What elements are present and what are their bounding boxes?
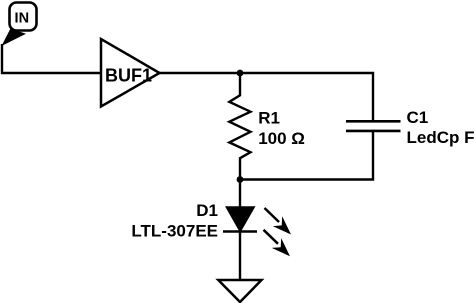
resistor R1 <box>229 73 250 180</box>
junction node R1 bottom <box>237 176 244 183</box>
port IN <box>2 3 37 47</box>
LED D1 <box>223 207 257 232</box>
wire D1 cathode to ground <box>239 232 241 281</box>
svg-text:C1: C1 <box>407 108 429 127</box>
wire R1 bottom to C1 bottom <box>240 131 373 180</box>
svg-text:R1: R1 <box>258 109 280 128</box>
svg-text:BUF1: BUF1 <box>105 66 152 86</box>
LED D1 light arrow 2 <box>264 230 291 256</box>
wire BUF1 output to C1 top <box>160 73 374 121</box>
svg-text:D1: D1 <box>196 201 218 220</box>
svg-text:LedCp F: LedCp F <box>407 128 474 147</box>
wire R1 bottom to D1 anode <box>239 180 241 208</box>
junction node R1 top <box>237 70 244 77</box>
svg-text:LTL-307EE: LTL-307EE <box>131 222 218 241</box>
LED D1 light arrow 1 <box>265 208 292 235</box>
capacitor C1 <box>346 121 401 131</box>
buffer U1 BUF1 <box>101 39 160 107</box>
ground <box>218 280 261 302</box>
svg-text:IN: IN <box>15 10 30 26</box>
svg-text:100 Ω: 100 Ω <box>258 129 305 148</box>
wire IN to BUF1 input <box>2 44 101 73</box>
